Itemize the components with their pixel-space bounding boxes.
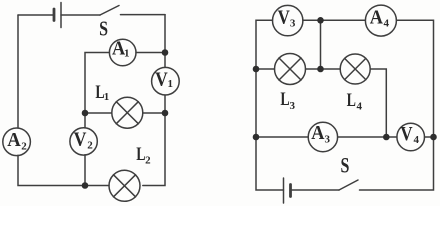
voltmeter V2: [70, 128, 97, 155]
wire: node to V4: [386, 136, 397, 138]
battery (left circuit): short plate: [53, 9, 56, 21]
wire: L4 right, corner down to A3-row node: [370, 69, 386, 137]
node: junction A (A1 row / right wire): [162, 49, 169, 56]
wire: V1 bottom to node C: [164, 95, 166, 113]
svg-text:A: A: [370, 8, 383, 29]
wire: node B to L1 left: [85, 112, 112, 114]
node: between L3 and L4: [317, 66, 324, 73]
ammeter A4: [365, 5, 396, 36]
node: junction B (L1 left / V2 top): [82, 110, 89, 117]
voltmeter V4: [397, 123, 425, 151]
svg-text:3: 3: [290, 18, 296, 30]
wire: top-left corner to V3: [256, 20, 273, 69]
lamp L3: [275, 54, 306, 85]
wire: A3 row, left node to A3: [256, 136, 308, 138]
svg-text:V: V: [400, 124, 412, 145]
svg-text:L: L: [136, 144, 145, 165]
voltmeter V3: [273, 5, 303, 35]
battery (right circuit): short plate: [289, 185, 292, 197]
wire: left vertical from top-left corner to A2 top: [17, 15, 19, 128]
wire: bottom row, node to lamp L2: [85, 185, 109, 187]
wire: right vertical, top corner down to node A: [164, 15, 166, 53]
wire: switch to top-right corner: [121, 14, 166, 16]
wire: node B down to V2 top: [84, 113, 86, 127]
node: A3 row right / L4 branch: [383, 134, 390, 141]
svg-text:2: 2: [87, 139, 93, 151]
wire: V3 to node T1: [303, 19, 321, 21]
node: V4 right on right wire: [430, 134, 437, 141]
battery (left circuit): long plate: [60, 3, 62, 28]
wire: V2 bottom to bottom-row node: [84, 155, 86, 186]
wire: node A to V1 top: [164, 53, 166, 68]
svg-text:1: 1: [124, 47, 130, 59]
ammeter A2: [3, 128, 31, 156]
svg-text:4: 4: [413, 134, 419, 146]
node: lamp row left: [253, 66, 260, 73]
wire: battery to switch pivot: [61, 14, 100, 16]
wire: A1 row left and branch down to node B: [85, 53, 109, 114]
wire: node T1 to A4: [321, 19, 366, 21]
svg-text:1: 1: [168, 78, 174, 90]
wire: left vertical of right circuit, lamp row to A3 row to bottom corner: [256, 69, 284, 190]
svg-text:2: 2: [145, 155, 151, 167]
svg-text:1: 1: [104, 91, 110, 103]
svg-text:3: 3: [325, 134, 331, 146]
wire: battery to switch pivot: [291, 189, 340, 191]
wire: L1 right to node C: [143, 112, 165, 114]
lamp L4: [340, 54, 370, 84]
node: bottom junction (V2 bottom): [82, 182, 89, 189]
node: T1 (V3/A4/vertical): [317, 17, 324, 24]
wire: node C down right side to bottom-right corner: [143, 113, 165, 186]
svg-text:L: L: [347, 90, 356, 111]
svg-text:3: 3: [290, 100, 296, 112]
lamp L2: [109, 170, 140, 201]
switch S (right circuit): open blade: [339, 180, 358, 190]
svg-text:A: A: [311, 123, 324, 144]
svg-text:L: L: [280, 89, 289, 110]
wire: lamp-row left node to L3: [256, 68, 275, 70]
wire: L3 to mid lamp node: [306, 68, 321, 70]
svg-text:S: S: [340, 152, 349, 177]
svg-text:V: V: [278, 7, 290, 28]
wire: right side below V4 node to bottom-right corner: [360, 137, 434, 190]
lamp L1: [112, 97, 143, 128]
node: junction C (L1 right / V1 bottom): [162, 110, 169, 117]
wire: vertical from node T1 down to lamp row: [320, 20, 322, 69]
svg-text:A: A: [7, 130, 21, 151]
svg-text:4: 4: [383, 18, 389, 30]
ammeter A1: [109, 39, 136, 66]
wire: A1 row right (A1 to node A): [136, 52, 165, 54]
wire: A2 bottom to bottom-left corner: [18, 155, 85, 185]
voltmeter V1: [152, 67, 180, 95]
svg-text:4: 4: [356, 101, 362, 113]
svg-text:V: V: [155, 70, 168, 91]
ammeter A3: [308, 122, 337, 151]
wire: V4 to right-wire node: [425, 136, 434, 138]
switch S (left circuit): open blade: [100, 6, 119, 16]
svg-text:V: V: [74, 130, 87, 151]
wire: mid lamp node to L4: [321, 68, 341, 70]
node: A3 row left: [253, 134, 260, 141]
svg-text:S: S: [99, 17, 108, 41]
wire: top-left segment from left corner to battery: [18, 14, 54, 16]
battery (right circuit): long plate: [283, 178, 285, 203]
wire: A4 to top-right corner, down right side: [396, 20, 433, 137]
svg-text:2: 2: [21, 140, 27, 152]
wire: A3 to right node: [338, 136, 387, 138]
